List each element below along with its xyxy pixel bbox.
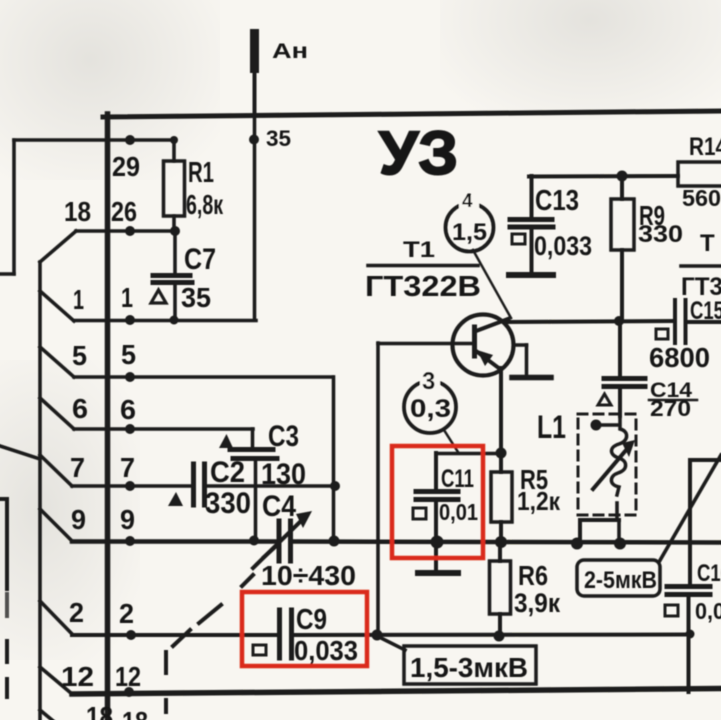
svg-text:7: 7 — [120, 452, 135, 483]
wire row 1 — [74, 319, 256, 323]
svg-text:0,01: 0,01 — [439, 499, 478, 525]
transistor T1 circle — [453, 315, 514, 376]
svg-text:1: 1 — [121, 282, 133, 313]
svg-text:4: 4 — [462, 191, 473, 212]
svg-text:0,04: 0,04 — [695, 598, 721, 624]
transistor T1 emitter — [476, 351, 500, 369]
svg-text:0,033: 0,033 — [534, 231, 592, 261]
node 35 — [249, 135, 259, 145]
resistor R1 — [172, 140, 176, 161]
svg-text:10÷430: 10÷430 — [261, 560, 356, 591]
svg-text:1,5: 1,5 — [452, 219, 487, 246]
red highlight box C11 — [392, 446, 483, 558]
dashed mechanical coupling line — [164, 652, 168, 673]
svg-text:Т: Т — [700, 230, 715, 257]
wire vertical x378 (C9 node to base) — [376, 343, 380, 635]
pointer diagonal to 2-5mkV — [659, 455, 721, 562]
resistor R5 — [499, 453, 503, 472]
connector branch row18 — [40, 231, 76, 262]
transistor T1 base bar — [472, 327, 477, 356]
inductor L1 dashed shield box — [578, 414, 636, 515]
capacitor C11 — [436, 452, 499, 456]
capacitor C4 variable — [277, 521, 282, 561]
svg-text:330: 330 — [205, 487, 251, 520]
wire T1 base — [378, 342, 472, 346]
svg-text:R14: R14 — [689, 133, 721, 161]
ground bar under C11 — [418, 570, 458, 576]
svg-text:С13: С13 — [535, 185, 579, 217]
svg-text:0,033: 0,033 — [294, 635, 358, 666]
connector branch bottom partial — [40, 710, 58, 720]
connector branch row2 — [40, 601, 72, 634]
wire left-edge screen lead — [0, 497, 7, 501]
wire collector rail y322 — [505, 321, 673, 322]
svg-text:С15: С15 — [690, 297, 721, 325]
svg-text:26: 26 — [111, 196, 137, 227]
connector left rail — [38, 262, 42, 720]
svg-text:12: 12 — [115, 661, 141, 692]
svg-text:12: 12 — [61, 661, 94, 692]
svg-text:ГТ322В: ГТ322В — [365, 271, 481, 303]
connector branch row5 — [40, 347, 74, 377]
svg-text:130: 130 — [261, 458, 306, 491]
svg-text:R6: R6 — [518, 560, 548, 591]
connector branch row6 — [40, 398, 74, 429]
capacitor C13 — [530, 176, 534, 217]
callout box 2-5мкВ — [577, 560, 660, 596]
svg-text:5: 5 — [72, 340, 87, 371]
wire row 5 — [74, 375, 333, 379]
resistor R9 — [620, 176, 624, 199]
svg-text:7: 7 — [70, 452, 85, 483]
svg-text:С3: С3 — [268, 420, 299, 453]
wire row 18/26 — [76, 229, 175, 233]
svg-text:Ан: Ан — [272, 40, 308, 63]
test point 4 (1,5 V) — [446, 204, 494, 252]
capacitor C9 — [277, 610, 282, 658]
connector branch row12 — [40, 667, 72, 694]
svg-text:18: 18 — [86, 701, 113, 720]
transistor T1 screen lead and ground bar — [514, 343, 527, 347]
wire row 2 left — [72, 633, 277, 637]
svg-text:560: 560 — [682, 185, 721, 211]
svg-text:2: 2 — [119, 598, 134, 629]
wire left vertical bus (screen boundary) — [105, 114, 111, 720]
svg-text:ГТ3: ГТ3 — [681, 273, 721, 301]
svg-text:1: 1 — [73, 284, 84, 315]
wire right stage corner — [690, 458, 721, 462]
L1 adjust arrow — [593, 449, 627, 489]
resistor R14 (cut at edge) — [678, 162, 721, 186]
svg-text:Т1: Т1 — [403, 237, 435, 262]
resistor R6 — [498, 542, 502, 561]
svg-text:6800: 6800 — [649, 342, 710, 373]
wire upper-left loop exit left y274 — [0, 272, 14, 276]
capacitor C14 — [618, 322, 622, 376]
pointer test4 to collector — [473, 250, 511, 318]
svg-text:330: 330 — [638, 221, 683, 248]
svg-text:18: 18 — [122, 706, 148, 720]
svg-text:9: 9 — [120, 504, 135, 535]
svg-text:0,3: 0,3 — [410, 395, 451, 423]
antenna stub Ан — [250, 29, 259, 73]
node on row y140 at bus — [125, 135, 135, 145]
wire top supply rail — [103, 111, 721, 117]
capacitor C7 — [173, 231, 177, 273]
wire C3 bottom to row9 — [254, 461, 258, 540]
svg-text:5: 5 — [121, 339, 136, 370]
wire C13/R9 rail y176 — [529, 174, 678, 179]
connector branch row9 — [40, 509, 72, 541]
svg-text:С4: С4 — [262, 490, 296, 523]
svg-text:2-5мкВ: 2-5мкВ — [584, 567, 657, 594]
svg-text:6: 6 — [72, 393, 88, 424]
svg-text:9: 9 — [71, 504, 86, 535]
wire row 7 right of C2 — [207, 484, 336, 488]
svg-text:1,2к: 1,2к — [517, 486, 561, 516]
wire from left edge into connector — [0, 446, 40, 459]
svg-text:С7: С7 — [184, 243, 216, 276]
callout box 1,5-3мкВ — [404, 646, 536, 684]
svg-text:С11: С11 — [441, 465, 474, 493]
ground bar under C13 — [509, 272, 553, 278]
svg-text:3,9к: 3,9к — [514, 588, 560, 618]
capacitor C2 — [191, 464, 196, 505]
wire upper-left loop horizontal y140 — [14, 138, 174, 142]
svg-text:29: 29 — [112, 151, 140, 182]
pointer to 1,5-3мкВ box — [379, 637, 405, 650]
svg-text:С2: С2 — [210, 456, 245, 489]
svg-text:3: 3 — [422, 368, 435, 395]
red highlight box C9 — [242, 592, 367, 666]
svg-text:1,5-3мкВ: 1,5-3мкВ — [410, 652, 528, 683]
connector branch row7 — [40, 455, 72, 486]
svg-text:2: 2 — [69, 597, 84, 628]
svg-text:С9: С9 — [296, 604, 327, 636]
wire vertical x333 row5 to row9 — [332, 377, 336, 541]
svg-text:УЗ: УЗ — [379, 119, 458, 187]
scan shading — [0, 0, 220, 180]
svg-text:270: 270 — [650, 396, 691, 421]
svg-text:35: 35 — [181, 282, 211, 313]
L1 tap node — [591, 420, 602, 431]
connector branch row1 — [40, 291, 74, 321]
wire upper-left loop vertical x14 — [12, 140, 16, 274]
node R1 top — [170, 136, 178, 144]
svg-text:6: 6 — [120, 394, 136, 425]
capacitor C3 — [230, 447, 273, 452]
transistor T1 collector — [476, 319, 508, 331]
svg-text:35: 35 — [266, 126, 291, 151]
capacitor C16 — [667, 584, 710, 589]
wire from node 35 down to row 1 — [253, 114, 257, 320]
svg-text:R1: R1 — [188, 157, 214, 189]
svg-text:С16: С16 — [697, 560, 721, 587]
wire row 6 — [74, 427, 253, 431]
wire row 2 right of C9 — [294, 633, 690, 638]
svg-text:6,8к: 6,8к — [186, 189, 224, 220]
test point 3 (0,3 V) — [404, 381, 456, 433]
wire emitter down — [499, 368, 503, 453]
inductor L1 coil — [611, 416, 626, 495]
wire row6 drop to C3 — [251, 429, 255, 449]
wire row 7 left — [72, 484, 191, 488]
capacitor C15 — [673, 300, 677, 343]
pointer test3 to C11 — [444, 430, 458, 452]
wire L1 bottom — [615, 503, 619, 520]
svg-text:L1: L1 — [537, 409, 566, 445]
wire row 12 bottom rail — [72, 689, 721, 695]
wire main common rail row 9 — [72, 539, 277, 544]
svg-text:18: 18 — [64, 196, 91, 227]
